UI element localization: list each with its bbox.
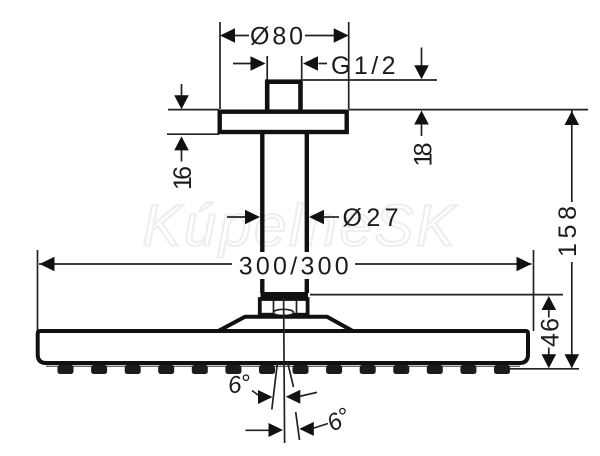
dimension 158 up arrow <box>565 111 580 125</box>
nut inner left line <box>273 301 275 314</box>
extension line right of Ø80 <box>348 22 350 109</box>
dimension Ø27 leader left (arrow pointing right) <box>227 216 247 218</box>
svg-text:G1/2: G1/2 <box>331 52 396 80</box>
arrow left 300/300 <box>40 257 55 272</box>
extension line left of G1/2 <box>266 56 268 81</box>
white box under 300/300 text <box>234 252 353 279</box>
connection pipe right wall <box>305 133 309 293</box>
extension line left of Ø80 <box>219 22 221 109</box>
dimension line Ø80 <box>232 35 249 37</box>
svg-text:18: 18 <box>409 143 437 167</box>
thread top extension line (right) <box>303 79 437 81</box>
spray right angle line lower <box>296 412 300 440</box>
nozzle teeth row <box>58 365 511 374</box>
label 18 <box>409 143 437 167</box>
dimension 18 down arrow <box>421 48 423 68</box>
dimension 46 up arrow <box>542 296 557 310</box>
ball joint ellipse <box>274 309 294 315</box>
svg-text:KúpelneSK: KúpelneSK <box>143 194 458 259</box>
svg-text:Ø27: Ø27 <box>343 204 399 232</box>
connection pipe left wall <box>260 133 264 293</box>
spray face extension line (right, bottom) <box>510 368 579 370</box>
escutcheon cone <box>216 317 356 333</box>
nut top extension line (right, for 46) <box>310 294 563 296</box>
arrow right Ø80 <box>334 28 349 43</box>
spray right angle line upper <box>288 362 294 387</box>
svg-text:16: 16 <box>169 166 197 190</box>
flange bottom extension line (left) <box>167 133 219 135</box>
spray center line <box>284 298 285 443</box>
label 16 <box>169 166 197 190</box>
svg-text:158: 158 <box>554 206 582 257</box>
spray left angle line <box>272 362 278 410</box>
dimension 158 line <box>571 110 573 202</box>
extension line right of 300/300 <box>533 250 535 331</box>
pipe end collar bar <box>261 292 309 298</box>
extension line right of G1/2 <box>301 56 303 81</box>
flange top extension line (right, ceiling plane) <box>349 109 588 111</box>
nut inner right line <box>296 301 298 314</box>
extension line left of 300/300 <box>37 250 39 331</box>
arrow pointing left G1/2 with tail <box>303 56 318 71</box>
swivel nut <box>260 299 308 315</box>
leader and arrow pointing right G1/2 <box>233 63 252 65</box>
arrow left Ø80 <box>220 28 235 43</box>
label 158 <box>554 206 582 257</box>
svg-text:6°: 6° <box>322 402 356 437</box>
dimension 158 down arrow <box>565 354 580 368</box>
label 46 <box>536 318 564 347</box>
svg-text:6°: 6° <box>226 370 253 400</box>
flange top extension line (left) <box>168 109 219 111</box>
svg-text:46: 46 <box>536 318 564 347</box>
dimension 16 up arrow <box>174 136 189 150</box>
shower head body <box>38 331 528 363</box>
dimension 46 down arrow <box>548 348 550 356</box>
spray face strip line <box>46 365 520 367</box>
dimension Ø27 leader right (arrow pointing left) <box>309 210 324 225</box>
svg-text:Ø80: Ø80 <box>250 22 303 50</box>
arrow right 300/300 <box>517 257 532 272</box>
ceiling thread square G1/2 <box>267 82 300 112</box>
bottom 6 degree left-pointing arrow with leader <box>299 422 314 436</box>
bottom pair right-pointing arrow with tail <box>246 429 271 431</box>
top pair left-pointing arrow with tail <box>286 390 301 404</box>
dimension 16 down arrow <box>181 84 183 98</box>
dimension 18 up arrow <box>414 111 429 125</box>
dimension line 300/300 <box>39 263 232 265</box>
ceiling flange plate <box>220 112 347 132</box>
top 6 degree leader and right-pointing arrow <box>252 391 260 397</box>
